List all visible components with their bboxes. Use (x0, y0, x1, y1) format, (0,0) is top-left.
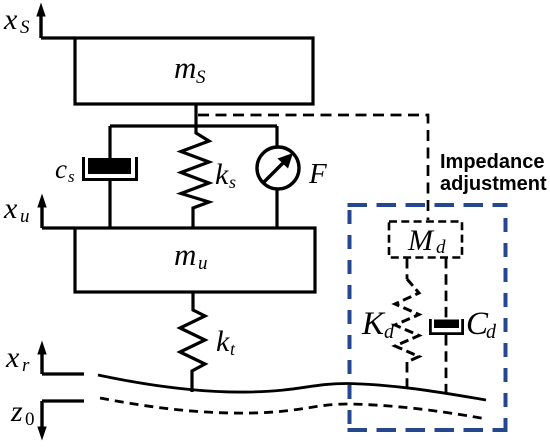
label Md (407, 224, 446, 258)
svg-text:s: s (68, 167, 75, 186)
wire Md to Kd (dashed) (406, 258, 409, 279)
damper cs (84, 157, 137, 180)
axis arrow xS (36, 3, 45, 39)
svg-text:x: x (5, 341, 20, 374)
spring Kd (dashed) (395, 279, 419, 362)
wire xS axis to mass (41, 36, 75, 39)
axis arrow xr (37, 341, 46, 375)
wire xu axis to mass (42, 226, 75, 229)
svg-text:k: k (216, 325, 230, 358)
svg-text:Impedance: Impedance (440, 151, 544, 173)
label Cd (466, 306, 497, 343)
label Impedance adjustment (440, 151, 547, 195)
svg-text:k: k (215, 158, 229, 191)
svg-text:s: s (229, 172, 236, 192)
mass Md (dashed box) (389, 222, 462, 258)
wire mS bottom to branch bar (194, 104, 197, 126)
wire branch bar (110, 124, 277, 127)
label xS (3, 3, 30, 38)
spring ks (181, 126, 209, 229)
mass mS (75, 38, 313, 104)
label xu (3, 192, 30, 227)
wire z0 axis line (42, 399, 84, 402)
svg-text:u: u (20, 206, 30, 227)
label Kd (361, 306, 395, 343)
wire Md to Cd (dashed) (445, 258, 448, 319)
wire damper top rod (108, 126, 111, 158)
mass mu (75, 228, 315, 292)
svg-text:d: d (486, 321, 497, 343)
road reference z0 (dashed) (100, 398, 484, 419)
wire Cd to road (dashed) (445, 335, 448, 394)
svg-text:S: S (196, 67, 206, 88)
svg-text:m: m (174, 50, 196, 85)
label z0 (10, 395, 35, 430)
svg-text:u: u (198, 253, 208, 274)
label ks (215, 158, 236, 192)
wire F top rod (275, 126, 278, 147)
wire F bottom rod (275, 189, 278, 229)
spring kt (180, 292, 205, 392)
label kt (216, 325, 236, 359)
svg-text:x: x (3, 3, 18, 36)
svg-text:d: d (436, 237, 446, 258)
svg-text:m: m (174, 237, 196, 272)
impedance box (blue dashed) right edge (504, 218, 508, 430)
dashed connector mS to Md (198, 115, 428, 220)
svg-text:r: r (22, 355, 30, 376)
label xr (5, 341, 30, 376)
damper Cd (430, 319, 462, 334)
svg-text:d: d (384, 321, 395, 343)
wire xr axis line (42, 372, 84, 375)
axis arrow z0 (37, 401, 46, 441)
svg-text:adjustment: adjustment (440, 173, 547, 195)
force source F (257, 147, 299, 189)
impedance box (blue dashed) top edge (348, 203, 508, 207)
impedance box (blue dashed) bottom edge (348, 428, 508, 432)
road surface xr (solid) (98, 375, 486, 400)
svg-text:K: K (361, 306, 386, 342)
impedance box (blue dashed) left edge (348, 210, 352, 430)
svg-text:F: F (308, 158, 327, 190)
svg-text:x: x (3, 192, 18, 225)
svg-text:0: 0 (25, 409, 35, 430)
svg-text:M: M (407, 224, 435, 257)
label mS (174, 50, 206, 88)
axis arrow xu (37, 194, 46, 229)
svg-text:c: c (55, 154, 67, 184)
label cs (55, 154, 75, 186)
svg-text:z: z (10, 395, 23, 428)
wire damper bottom rod (108, 181, 111, 229)
svg-text:S: S (20, 17, 30, 38)
wire Kd to road (dashed) (406, 362, 409, 391)
label mu (174, 237, 208, 274)
